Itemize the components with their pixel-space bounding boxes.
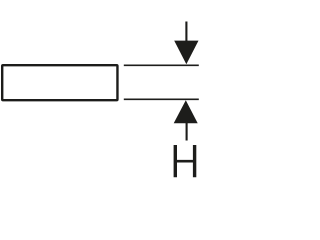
bottom arrowhead (pointing up): [174, 100, 198, 123]
dimension label H: [174, 145, 197, 177]
top arrow shaft: [185, 22, 187, 45]
bottom dimension line: [124, 98, 199, 100]
top arrowhead (pointing down): [174, 41, 198, 65]
bottom arrow shaft: [186, 121, 188, 141]
top dimension line: [124, 64, 199, 66]
product body rectangle: [2, 65, 117, 100]
